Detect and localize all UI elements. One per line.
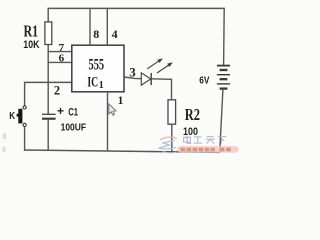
svg-text:6: 6 <box>59 52 65 64</box>
battery plate long 2 <box>217 74 230 76</box>
wire pin2 line <box>24 81 72 83</box>
svg-text:R1: R1 <box>24 22 39 41</box>
battery plate long 3 <box>217 83 230 85</box>
switch K terminal top <box>23 106 26 109</box>
LED arrow 2 <box>157 65 169 73</box>
svg-text:100UF: 100UF <box>61 122 87 134</box>
LED arrow 1 <box>147 61 159 69</box>
wire bus below R1 <box>47 45 49 114</box>
svg-text:6V: 6V <box>199 75 209 87</box>
wire pin1 <box>107 92 109 151</box>
svg-text:2: 2 <box>54 84 60 98</box>
wire pin8 <box>89 8 91 45</box>
wire pin6 stub <box>48 61 72 63</box>
svg-text:3: 3 <box>129 65 136 80</box>
resistor R1 <box>45 22 52 45</box>
wire pin4 <box>106 8 108 45</box>
battery plate long 1 <box>217 65 230 67</box>
watermark banner <box>177 146 238 153</box>
wire R1 top lead <box>47 8 49 22</box>
svg-text:8: 8 <box>93 27 99 41</box>
svg-text:+: + <box>57 104 64 118</box>
svg-text:100: 100 <box>183 126 198 138</box>
wire below R2 <box>171 124 173 152</box>
svg-text:C1: C1 <box>68 106 78 118</box>
svg-text:1: 1 <box>118 95 124 107</box>
battery plate short 1 <box>220 69 228 71</box>
LED D1 triangle <box>141 73 150 85</box>
LED D1 cathode bar <box>150 73 152 85</box>
svg-text:IC: IC <box>87 74 98 90</box>
svg-text:555: 555 <box>89 56 105 73</box>
wire top rail <box>48 7 225 9</box>
watermark text dian gong tian xia <box>184 136 227 144</box>
resistor R2 <box>168 100 176 124</box>
wire K branch upper <box>24 82 26 105</box>
cursor pointer <box>109 104 116 116</box>
switch K actuator bar <box>18 109 22 124</box>
battery plate short 3 <box>220 87 228 89</box>
capacitor C1 plate bottom <box>42 118 56 120</box>
wire LED to corner <box>152 79 172 100</box>
svg-text:K: K <box>9 110 15 122</box>
svg-text:10K: 10K <box>23 39 39 51</box>
capacitor C1 plate top <box>42 113 56 115</box>
wire pin7 stub <box>48 51 72 53</box>
svg-text:R2: R2 <box>185 105 200 124</box>
svg-text:1: 1 <box>99 80 104 91</box>
watermark logo <box>159 137 176 153</box>
op-amp/timer IC1 555 box <box>72 45 124 92</box>
wire pin3 stub <box>124 77 141 79</box>
battery BT top lead <box>223 8 226 65</box>
wire bottom rail <box>24 150 220 152</box>
switch K terminal bottom <box>23 123 26 126</box>
wire below C1 <box>47 120 49 151</box>
svg-text:4: 4 <box>112 27 118 41</box>
battery bottom lead <box>220 90 223 153</box>
wire K branch lower <box>24 127 26 151</box>
battery plate short 2 <box>220 78 228 80</box>
